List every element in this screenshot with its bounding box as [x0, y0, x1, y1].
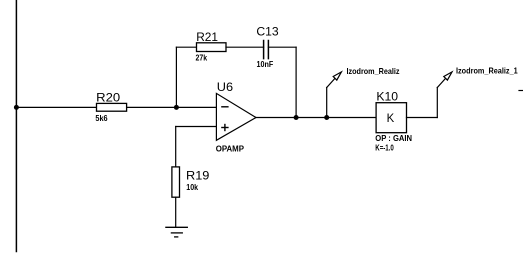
svg-text:R20: R20	[96, 90, 120, 104]
svg-text:27k: 27k	[196, 53, 208, 62]
resistor R21 body	[197, 43, 227, 52]
wire: left vertical input bus	[15, 0, 17, 252]
junction on left bus (node IN)	[14, 105, 19, 110]
ground symbol	[166, 226, 187, 228]
svg-text:K: K	[387, 111, 395, 125]
wire: R21 to C13	[226, 46, 264, 48]
capacitor C13 left plate	[263, 41, 265, 59]
svg-text:OPAMP: OPAMP	[216, 144, 245, 153]
svg-text:R21: R21	[196, 30, 218, 44]
svg-text:C13: C13	[256, 24, 279, 38]
svg-text:OP : GAIN: OP : GAIN	[375, 134, 412, 143]
svg-text:K=-1.0: K=-1.0	[375, 143, 394, 152]
net flag arrow Izodrom_Realiz_1	[437, 78, 445, 87]
op-amp non-inverting pin plus sign	[222, 127, 228, 129]
svg-text:R19: R19	[186, 169, 210, 183]
svg-text:Izodrom_Realiz: Izodrom_Realiz	[347, 66, 400, 76]
op-amp inverting pin minus sign	[222, 106, 228, 108]
wire: non-inverting input horizontal	[176, 126, 217, 128]
wire: riser to net flag 2	[436, 88, 438, 118]
wire: input net from bus to op-amp inverting input	[16, 106, 216, 108]
svg-text:K10: K10	[376, 90, 398, 104]
op-amp U6 triangle	[216, 93, 256, 140]
wire: feedback left vertical	[175, 47, 177, 107]
wire: R19 to ground	[175, 197, 177, 227]
wire: feedback top left segment to R21	[176, 46, 196, 48]
junction dot: feedback node at inverting input	[174, 105, 179, 110]
wire: C13 to feedback right corner	[268, 46, 296, 48]
resistor R20 body	[97, 103, 127, 111]
net flag arrow Izodrom_Realiz	[327, 78, 335, 87]
svg-text:10nF: 10nF	[257, 60, 274, 69]
wire: down to R19	[175, 127, 177, 167]
junction dot: feedback joins output	[294, 115, 299, 120]
wire: riser to net flag 1	[326, 88, 328, 118]
junction dot: tap for net flag Izodrom_Realiz	[324, 115, 329, 120]
svg-text:5k6: 5k6	[95, 114, 108, 123]
wire: K10 output	[407, 117, 438, 119]
wire: clipped stub at right edge	[519, 90, 523, 92]
svg-text:U6: U6	[217, 80, 234, 94]
gain block K10 body	[376, 103, 406, 133]
resistor R19 body	[172, 167, 180, 197]
wire: op-amp output net	[256, 117, 376, 119]
svg-text:Izodrom_Realiz_1: Izodrom_Realiz_1	[456, 65, 518, 75]
wire: feedback right vertical down to output node	[295, 47, 297, 117]
svg-text:10k: 10k	[186, 183, 198, 192]
capacitor C13 right plate	[267, 41, 269, 59]
